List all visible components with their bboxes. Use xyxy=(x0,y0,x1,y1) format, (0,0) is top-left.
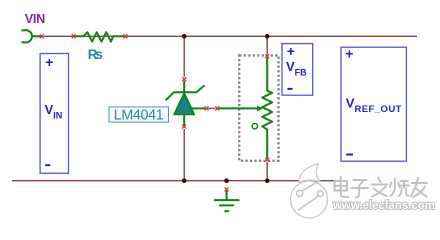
svg-text:+: + xyxy=(345,46,353,62)
svg-text:VIN: VIN xyxy=(45,102,63,120)
svg-text:+: + xyxy=(287,43,295,59)
svg-text:LM4041: LM4041 xyxy=(114,107,164,123)
svg-text:www.elecfans.com: www.elecfans.com xyxy=(332,200,435,212)
svg-text:VFB: VFB xyxy=(286,59,307,78)
svg-text:+: + xyxy=(45,54,53,70)
svg-text:VREF_OUT: VREF_OUT xyxy=(346,96,402,116)
svg-text:VIN: VIN xyxy=(25,12,46,26)
svg-text:Rs: Rs xyxy=(88,47,103,62)
